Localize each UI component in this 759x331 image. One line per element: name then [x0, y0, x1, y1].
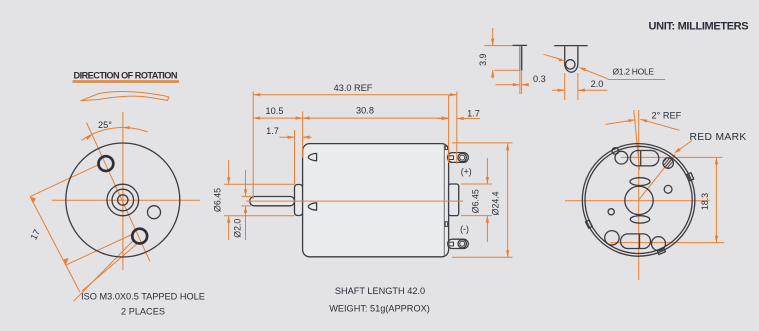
- svg-text:1.7: 1.7: [467, 109, 480, 119]
- svg-text:UNIT: MILLIMETERS: UNIT: MILLIMETERS: [649, 20, 749, 32]
- svg-text:Ø24.4: Ø24.4: [491, 191, 501, 215]
- svg-text:SHAFT LENGTH 42.0: SHAFT LENGTH 42.0: [335, 286, 425, 296]
- svg-text:RED MARK: RED MARK: [690, 132, 747, 143]
- svg-text:25°: 25°: [98, 120, 112, 130]
- svg-text:2° REF: 2° REF: [652, 110, 682, 120]
- svg-text:Ø2.0: Ø2.0: [233, 219, 243, 238]
- svg-text:WEIGHT: 51g(APPROX): WEIGHT: 51g(APPROX): [329, 304, 430, 314]
- svg-text:DIRECTION OF ROTATION: DIRECTION OF ROTATION: [74, 70, 178, 80]
- svg-text:18.3: 18.3: [700, 193, 710, 210]
- svg-text:2 PLACES: 2 PLACES: [121, 307, 165, 317]
- svg-text:Ø6.45: Ø6.45: [212, 188, 222, 212]
- svg-text:10.5: 10.5: [266, 106, 284, 116]
- svg-text:ISO M3.0X0.5 TAPPED HOLE: ISO M3.0X0.5 TAPPED HOLE: [81, 292, 205, 302]
- svg-text:0.3: 0.3: [533, 74, 546, 84]
- svg-text:Ø6.45: Ø6.45: [470, 189, 480, 213]
- svg-text:43.0 REF: 43.0 REF: [334, 83, 373, 93]
- svg-text:(-): (-): [460, 224, 469, 234]
- svg-text:1.7: 1.7: [266, 126, 279, 136]
- svg-text:Ø1.2 HOLE: Ø1.2 HOLE: [613, 67, 655, 77]
- svg-text:30.8: 30.8: [356, 106, 374, 116]
- svg-text:3.9: 3.9: [478, 53, 488, 65]
- svg-text:2.0: 2.0: [591, 79, 604, 89]
- svg-text:(+): (+): [461, 166, 472, 176]
